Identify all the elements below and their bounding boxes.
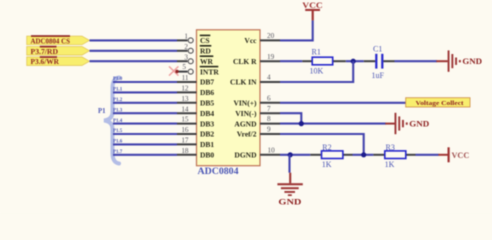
svg-text:WR: WR [200, 57, 214, 66]
svg-text:DB7: DB7 [200, 78, 214, 87]
svg-text:2: 2 [184, 43, 188, 51]
svg-text:3: 3 [184, 53, 188, 61]
svg-text:20: 20 [267, 32, 275, 40]
svg-text:DB0: DB0 [200, 151, 214, 160]
svg-text:9: 9 [267, 126, 271, 134]
svg-text:1K: 1K [322, 160, 332, 169]
net flag P3.6 WR [27, 56, 90, 66]
wire P1.6 to DB1 with label [113, 140, 177, 145]
wire P1.0 to DB7 with label [113, 77, 177, 82]
svg-text:C1: C1 [373, 45, 382, 54]
wire pin 10 to R2 [280, 154, 310, 156]
svg-text:16: 16 [181, 126, 189, 134]
svg-text:8: 8 [267, 115, 271, 123]
wire P1.2 to DB5 with label [113, 98, 177, 103]
IC U1 ADC0804 body [197, 30, 261, 166]
pin stub 11 DB7 [177, 81, 197, 83]
resistor R2 1K [310, 143, 352, 169]
wire pin 9 down to R2/R3 junction [280, 134, 364, 155]
svg-text:DB5: DB5 [200, 99, 214, 108]
pin stub 8 AGND [260, 123, 280, 125]
wire pin 8 to GND [280, 123, 386, 125]
svg-text:P1.5: P1.5 [113, 129, 123, 134]
wire P1.5 to DB2 with label [113, 129, 177, 134]
svg-text:ADC0804 CS: ADC0804 CS [31, 36, 71, 45]
svg-text:Voltage Collect: Voltage Collect [416, 100, 465, 107]
resistor R1 10K [302, 48, 346, 76]
wire pin 7 down to pin 8 net [280, 113, 301, 123]
pin name RD pin 2 [200, 45, 212, 56]
net flag P3.7 RD [27, 46, 90, 56]
pin stub 10 DGND [260, 154, 280, 156]
pin stub 18 DB0 [177, 154, 197, 156]
pin name WR pin 3 [200, 55, 214, 66]
svg-text:1: 1 [184, 33, 188, 41]
wire P1.3 to DB4 with label [113, 108, 177, 113]
svg-text:1K: 1K [385, 160, 395, 169]
no-ERC marker red X on INTR [169, 66, 179, 75]
svg-text:P1.3: P1.3 [113, 108, 123, 113]
capacitor C1 1uF [364, 45, 395, 81]
pin stub 6 VIN(+) [260, 102, 280, 104]
pin stub 4 CLK IN [260, 81, 280, 83]
svg-text:P1.2: P1.2 [113, 98, 123, 103]
net label Voltage Collect [406, 98, 470, 107]
ground GND right of C1 [436, 50, 482, 71]
pin stub 9 Vref/2 [260, 133, 280, 135]
pin stub 13 DB5 [177, 102, 197, 104]
wire RD flag to pin 2 [90, 50, 178, 52]
svg-text:VIN(-): VIN(-) [235, 109, 257, 118]
svg-text:CLK R: CLK R [233, 57, 257, 66]
wire pin 6 to Voltage Collect [280, 102, 406, 104]
power symbol VCC top [302, 0, 323, 20]
svg-text:GND: GND [409, 119, 429, 129]
svg-text:DB4: DB4 [200, 109, 214, 118]
svg-text:DB6: DB6 [200, 88, 214, 97]
svg-text:19: 19 [267, 53, 275, 61]
wire P1.4 to DB3 with label [113, 119, 177, 124]
pin stub 3 WR with bubble [177, 59, 193, 64]
wire C1 to GND [395, 60, 438, 62]
svg-text:DB2: DB2 [200, 130, 214, 139]
wire WR flag to pin 3 [90, 60, 178, 62]
ground GND at AGND [385, 113, 429, 134]
svg-text:18: 18 [181, 147, 189, 155]
wire DGND junction down to GND [288, 155, 290, 173]
svg-text:VIN(+): VIN(+) [233, 99, 257, 108]
svg-text:15: 15 [181, 116, 189, 124]
wire pin 19 to R1 [280, 60, 302, 62]
svg-text:DB1: DB1 [200, 140, 214, 149]
svg-text:Vref/2: Vref/2 [237, 130, 257, 139]
wire P1.1 to DB6 with label [113, 88, 177, 93]
wire junction down to pin 4 CLK IN [280, 61, 353, 82]
wire pin 20 to VCC rail [280, 20, 313, 40]
svg-text:R3: R3 [386, 143, 395, 152]
ground GND bottom [277, 173, 302, 207]
svg-text:VCC: VCC [452, 151, 470, 160]
port brace P1 [98, 78, 119, 164]
svg-text:10K: 10K [310, 67, 324, 76]
svg-text:AGND: AGND [234, 119, 257, 128]
svg-text:P1.7: P1.7 [113, 150, 123, 155]
svg-text:P1.0: P1.0 [113, 77, 123, 82]
svg-text:5: 5 [182, 63, 186, 71]
junction at pin 8 net [299, 121, 304, 126]
pin name INTR pin 5 [200, 66, 220, 77]
svg-text:P1.6: P1.6 [113, 140, 123, 145]
power symbol VCC right [438, 147, 469, 162]
svg-text:13: 13 [181, 95, 189, 103]
svg-text:P3.7/RD: P3.7/RD [31, 47, 59, 56]
svg-text:CS: CS [200, 36, 210, 45]
pin stub 1 CS with bubble [177, 38, 193, 43]
svg-text:1uF: 1uF [372, 71, 385, 80]
svg-text:7: 7 [267, 105, 271, 113]
wire R3 to VCC right [416, 154, 439, 156]
pin name CS pin 1 [200, 35, 211, 46]
svg-text:P1: P1 [98, 108, 106, 115]
pin stub 20 Vcc [260, 39, 280, 41]
pin stub 12 DB6 [177, 91, 197, 93]
svg-text:R1: R1 [312, 48, 321, 57]
pin stub 19 CLK R [260, 60, 280, 62]
svg-text:VCC: VCC [302, 0, 323, 10]
pin stub 17 DB1 [177, 143, 197, 145]
svg-text:P1.4: P1.4 [113, 119, 123, 124]
svg-text:Vcc: Vcc [244, 36, 257, 45]
svg-text:GND: GND [462, 56, 482, 66]
svg-text:4: 4 [267, 74, 271, 82]
svg-text:GND: GND [278, 197, 301, 207]
svg-text:R2: R2 [322, 143, 331, 152]
pin stub 5 INTR with bubble [177, 69, 193, 74]
pin stub 7 VIN(-) [260, 112, 280, 114]
wire R2 to R3 [353, 154, 374, 156]
pin stub 2 RD with bubble [177, 48, 193, 53]
junction at DGND net [288, 152, 293, 157]
svg-text:DB3: DB3 [200, 119, 214, 128]
svg-text:10: 10 [268, 146, 276, 154]
svg-text:6: 6 [267, 94, 271, 102]
svg-text:CLK IN: CLK IN [230, 78, 257, 87]
wire R1 to junction to C1 [346, 60, 364, 62]
wire CS flag to pin 1 [90, 39, 178, 41]
svg-text:RD: RD [200, 47, 211, 56]
svg-text:INTR: INTR [200, 67, 219, 76]
resistor R3 1K [373, 143, 415, 169]
svg-text:14: 14 [181, 105, 189, 113]
svg-text:12: 12 [181, 85, 189, 93]
net flag ADC0804 CS [27, 35, 90, 45]
svg-text:11: 11 [182, 74, 189, 82]
pin stub 14 DB4 [177, 112, 197, 114]
svg-text:17: 17 [181, 137, 189, 145]
svg-text:P3.6/WR: P3.6/WR [31, 57, 60, 66]
svg-text:DGND: DGND [234, 151, 257, 160]
pin stub 16 DB2 [177, 133, 197, 135]
wire P1.7 to DB0 with label [113, 150, 177, 155]
svg-text:P1.1: P1.1 [113, 88, 123, 93]
junction between R2 and R3 [361, 152, 366, 157]
pin stub 15 DB3 [177, 123, 197, 125]
junction at R1/C1/CLK IN [351, 59, 356, 64]
svg-text:ADC0804: ADC0804 [198, 166, 240, 176]
